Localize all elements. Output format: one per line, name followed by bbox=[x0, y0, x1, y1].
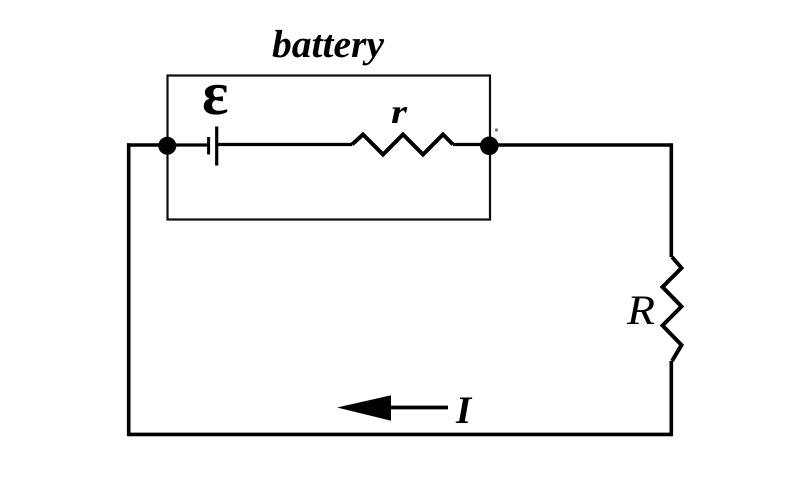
battery box bbox=[168, 76, 491, 220]
junction node dot left bbox=[158, 137, 176, 155]
battery cell short plate bbox=[207, 137, 210, 155]
wire right vertical lower segment bbox=[669, 361, 673, 436]
wire left vertical bbox=[127, 143, 131, 436]
battery cell long plate bbox=[215, 127, 218, 166]
wire resistor r to right dot bbox=[453, 143, 489, 146]
current arrow shaft bbox=[389, 406, 448, 410]
label EMF epsilon bbox=[204, 85, 228, 115]
resistor r zigzag bbox=[352, 135, 453, 155]
wire bottom horizontal bbox=[129, 433, 672, 437]
resistor R zigzag bbox=[663, 257, 682, 361]
wire top-right horizontal (dot to corner) bbox=[489, 143, 671, 147]
current arrow head bbox=[337, 395, 391, 420]
label I bbox=[456, 397, 473, 423]
wire battery plate to resistor r bbox=[217, 143, 352, 146]
wire right vertical upper segment bbox=[669, 143, 673, 257]
wire top-left horizontal segment bbox=[127, 143, 167, 147]
label battery bbox=[273, 30, 385, 65]
wire left dot to battery plate bbox=[167, 143, 208, 146]
junction node dot right bbox=[480, 137, 499, 156]
stray speck artifact bbox=[495, 128, 498, 131]
label r bbox=[392, 107, 407, 123]
label R bbox=[627, 296, 654, 324]
